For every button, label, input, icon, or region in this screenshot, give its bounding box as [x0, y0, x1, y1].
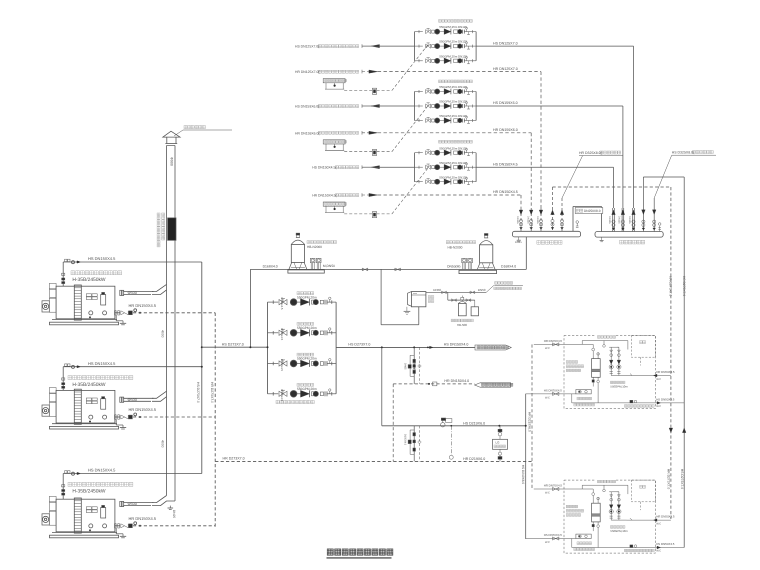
svg-text:HS DN70X4.5: HS DN70X4.5: [544, 533, 563, 537]
boiler B2 label: [68, 376, 133, 388]
pipe HR D219X6.0 label: [463, 457, 485, 461]
svg-text:DN65: DN65: [404, 363, 407, 370]
bypass assembly 2: [404, 426, 422, 462]
pipe riser supply to HS D219 main: [381, 347, 383, 425]
drawing title: [327, 549, 393, 558]
collector inlet drop 2: [526, 208, 533, 231]
pipe makeup water main: [249, 265, 526, 349]
bypass assembly 1: [404, 347, 422, 384]
boiler B3 supply line HS DN150X4.5: [63, 468, 202, 476]
svg-text:HR DN125X7.0: HR DN125X7.0: [493, 67, 518, 71]
svg-text:DN125: DN125: [628, 216, 631, 224]
unit U2 HS inlet left: [526, 533, 576, 544]
pump P4-3 primary hot-water pump: [268, 353, 337, 371]
svg-text:HR D273X7.0: HR D273X7.0: [223, 456, 245, 460]
unit U2 HR outlet right: [627, 515, 675, 526]
boiler B3 return line HR DN150X4.5: [115, 516, 216, 528]
svg-text:550GPM,25m DN125: 550GPM,25m DN125: [439, 175, 467, 179]
pressurization unit box loop 2: [323, 140, 346, 151]
boiler B2 return line HR DN150X4.5: [115, 407, 216, 419]
pump P2-3 secondary pump: [415, 114, 477, 123]
unit U1 HR outlet right: [627, 370, 675, 381]
pipe HS primary main: [202, 343, 268, 348]
svg-text:HB-500: HB-500: [457, 323, 468, 327]
svg-text:550GPM,25m DN125: 550GPM,25m DN125: [439, 146, 467, 150]
unit U1 bottom pipe: [572, 394, 684, 408]
svg-text:550GPM,20m: 550GPM,20m: [297, 295, 317, 299]
svg-text:HR D219X6.0: HR D219X6.0: [463, 457, 485, 461]
pump group G4 label: [276, 400, 314, 403]
svg-text:DN125: DN125: [608, 216, 611, 224]
pipe HR from commercial flag (dashed): [393, 379, 474, 386]
svg-text:HS D273X7.0: HS D273X7.0: [348, 343, 370, 347]
pipe HS primary main right of pump group: [336, 343, 475, 349]
svg-text:HS D273X7.0: HS D273X7.0: [196, 382, 200, 403]
supply pennant flag: [475, 345, 511, 350]
distributor header: [595, 232, 663, 244]
svg-text:W.C: W.C: [545, 541, 550, 544]
svg-text:550GPM,25m DN125: 550GPM,25m DN125: [439, 54, 467, 58]
expansion tank A: [288, 233, 324, 273]
label HR D325X8.0 external return: [562, 151, 623, 198]
boiler B1 body: [50, 285, 119, 325]
distributor outlet drop 1: [628, 208, 635, 232]
return pennant flag: [475, 383, 513, 387]
unit U1 pressurization pump box: [574, 390, 595, 406]
unit U2 water tank sub-box: [631, 480, 655, 502]
svg-text:W.C: W.C: [656, 523, 661, 526]
svg-text:W.C: W.C: [545, 491, 550, 494]
label HS D325X8.0 external supply: [654, 151, 716, 199]
pump P3-2 secondary pump: [415, 161, 477, 170]
svg-text:D159x4.5: D159x4.5: [280, 359, 284, 371]
svg-text:HR DN159X6.0: HR DN159X6.0: [493, 128, 518, 132]
svg-text:DN50: DN50: [478, 288, 486, 292]
pipe HR loop 2 to collector (dashed): [378, 128, 532, 208]
svg-text:HS D219X6.0: HS D219X6.0: [521, 465, 525, 485]
collector drop 5 (external return): [560, 198, 564, 231]
flue duct boiler B2: [120, 391, 167, 402]
pump group G2 title: [439, 80, 473, 83]
pipe HS riser to unit boxes: [521, 394, 527, 539]
control line loop 3 (dashed with solenoid): [344, 167, 428, 217]
softened water tank drain mark: [404, 307, 411, 314]
svg-text:HR D219X6.0: HR D219X6.0: [528, 412, 532, 432]
vacuum degasser unit: [493, 426, 508, 462]
svg-text:550GPM,25m DN125: 550GPM,25m DN125: [439, 100, 467, 104]
svg-text:550GPM,25m DN125: 550GPM,25m DN125: [439, 25, 467, 29]
svg-text:HS DN50X3.5: HS DN50X3.5: [656, 542, 675, 546]
svg-text:HS D273X7.0: HS D273X7.0: [682, 276, 686, 296]
pipe HR riser from unit boxes (dashed): [528, 344, 532, 489]
heat exchange unit U2 enclosure: [564, 478, 656, 553]
pump P4-2 primary hot-water pump: [268, 322, 337, 340]
unit U2 left spec text: [566, 505, 584, 516]
pipe HS loop 1 to distributor: [476, 46, 633, 208]
boiler B3 drain: [116, 528, 126, 538]
svg-text:DN125: DN125: [516, 216, 519, 224]
unit U1 internal top pipe: [582, 341, 628, 350]
pump group G1 bracket: [415, 32, 477, 61]
unit U1 water tank sub-box: [631, 336, 655, 358]
boiler B1 drain: [116, 315, 126, 325]
svg-text:HS DN70X4.5: HS DN70X4.5: [544, 388, 563, 392]
pipe HS boiler header vertical: [196, 262, 203, 474]
chimney top label: [174, 126, 232, 137]
control line loop 1 (dashed with solenoid): [344, 44, 428, 94]
svg-text:550GPM,20m: 550GPM,20m: [297, 326, 317, 330]
svg-text:D159x4.5: D159x4.5: [280, 328, 284, 340]
pump P2-2 secondary pump: [415, 100, 477, 109]
heat exchange unit U1 enclosure: [564, 334, 656, 409]
pressure-differential bypass valve: [441, 418, 452, 427]
pipe HS secondary loop 1 label row: [295, 41, 518, 48]
svg-text:550GPM,20m: 550GPM,20m: [297, 357, 317, 361]
svg-text:HS DN150X4.0: HS DN150X4.0: [444, 343, 469, 347]
svg-text:550GPM,25m DN125: 550GPM,25m DN125: [439, 40, 467, 44]
svg-text:HS D219X6.0: HS D219X6.0: [463, 421, 485, 425]
collector header: [512, 231, 580, 244]
svg-text:HS D273X7.0: HS D273X7.0: [680, 469, 684, 489]
unit U1 tank drop pipe: [640, 357, 642, 365]
chimney silencer: [157, 213, 176, 247]
balance pipe air vent: [576, 221, 579, 228]
svg-text:DN50(M): DN50(M): [447, 265, 460, 269]
collector drop 4 (from HX units return): [551, 187, 555, 231]
svg-text:Φ500: Φ500: [128, 291, 137, 295]
collector inlet drop 1: [536, 208, 543, 231]
svg-text:D150X4.0: D150X4.0: [404, 434, 407, 446]
svg-text:HS DN150X4.5: HS DN150X4.5: [493, 162, 518, 166]
svg-text:D168X4.0: D168X4.0: [501, 265, 516, 269]
unit U1 circulation pumps: [609, 341, 628, 389]
collector inlet drop 3: [516, 208, 523, 231]
boiler B3 body: [50, 498, 119, 538]
svg-text:HB-N2000: HB-N2000: [307, 245, 322, 249]
pipe HR secondary loop 1 label row (dashed): [295, 70, 378, 74]
pump P4-4 primary hot-water pump: [268, 383, 337, 401]
distributor drop 5 (external supply): [652, 198, 656, 232]
pump P3-3 secondary pump: [415, 175, 477, 184]
svg-text:HS DN125X7.0(: HS DN125X7.0(: [295, 45, 320, 49]
pipe HR secondary loop 3 label row (dashed): [312, 193, 378, 197]
svg-text:550GPM,25m DN125: 550GPM,25m DN125: [439, 161, 467, 165]
boiler B3 supply riser: [62, 474, 65, 500]
pressurization unit box loop 3: [323, 202, 346, 213]
valve on makeup line 1: [362, 268, 368, 271]
boiler B1 burner: [42, 283, 56, 312]
svg-text:550GPM,10m: 550GPM,10m: [610, 384, 628, 388]
distributor drop 4 (to HX units supply): [642, 177, 646, 232]
pump group G2 bracket: [415, 92, 477, 121]
pump P2-1 secondary pump: [415, 85, 477, 94]
boiler B1 supply riser: [62, 262, 65, 286]
unit U2 circulation pumps: [609, 485, 628, 533]
svg-text:DN50: DN50: [433, 288, 441, 292]
pipe collector to makeup connection: [501, 237, 526, 270]
pump group G4 bracket: [267, 302, 337, 394]
svg-text:DN25: DN25: [515, 241, 522, 244]
pressurization unit box loop 1: [323, 79, 346, 90]
distributor outlet drop 3: [608, 208, 615, 232]
svg-text:HS DN150X4.5: HS DN150X4.5: [88, 361, 116, 366]
chimney stack: [167, 146, 176, 502]
unit U2 internal top pipe: [582, 485, 628, 494]
collector drain: [515, 237, 522, 244]
svg-text:H-35B/2450kW: H-35B/2450kW: [72, 382, 106, 388]
unit U1 HS inlet left: [526, 388, 576, 399]
unit U1 left spec text: [566, 361, 584, 372]
distributor drain: [600, 237, 604, 242]
pump P1-3 secondary pump: [415, 54, 477, 63]
svg-text:DN25: DN25: [172, 510, 176, 518]
pump P4-1 primary hot-water pump: [268, 292, 337, 310]
svg-text:HR DN150X4.0: HR DN150X4.0: [444, 379, 469, 383]
svg-text:W.C: W.C: [545, 347, 550, 350]
boiler B3 label: [68, 482, 133, 494]
svg-text:HS DN50X3.5: HS DN50X3.5: [656, 397, 675, 401]
svg-text:HR DN150X4.5(: HR DN150X4.5(: [312, 194, 337, 198]
chimney cap: [163, 131, 180, 145]
pipe HR loop 1 to collector (dashed): [378, 67, 541, 208]
boiler B1 supply line HS DN150X4.5: [63, 256, 202, 264]
pump group G3 title: [439, 140, 473, 143]
svg-text:HB-N2000: HB-N2000: [448, 246, 463, 250]
pipe HS loop 2 to distributor: [476, 106, 623, 208]
pump group G1 title: [439, 20, 473, 23]
flue duct boiler B3: [120, 496, 176, 519]
pipe tank feed from makeup: [381, 269, 419, 324]
boiler B2 supply riser: [62, 367, 65, 391]
pipe HR riser from HX units (dashed): [553, 187, 673, 519]
boiler B2 body: [50, 389, 119, 429]
unit U2 pressurization pump box: [574, 534, 595, 550]
svg-text:HR DN70X4.5: HR DN70X4.5: [544, 483, 563, 487]
svg-text:DN125: DN125: [526, 216, 529, 224]
svg-text:Φ500: Φ500: [128, 398, 137, 402]
pipe HR secondary loop 2 label row (dashed): [295, 131, 378, 135]
pipe HS to commercial flag: [427, 343, 468, 349]
svg-text:550GPM,25m DN125: 550GPM,25m DN125: [439, 85, 467, 89]
city water inlet label: [486, 282, 523, 293]
svg-text:HS DN159X6.0(: HS DN159X6.0(: [295, 105, 320, 109]
expansion tank B: [459, 234, 497, 274]
svg-text:550GPM,20m: 550GPM,20m: [297, 387, 317, 391]
pump group G3 bracket: [415, 153, 477, 182]
softened water tank: [408, 292, 434, 307]
svg-text:HS DN150X4.5: HS DN150X4.5: [88, 256, 116, 261]
boiler B2 drain: [116, 419, 126, 429]
svg-text:HR DN159X6.0(: HR DN159X6.0(: [295, 131, 320, 135]
svg-text:HR DN150X4.5: HR DN150X4.5: [129, 407, 157, 412]
svg-text:Φ900: Φ900: [170, 157, 174, 166]
svg-text:D159x4.5: D159x4.5: [280, 389, 284, 401]
condensate trap on HR main: [449, 426, 453, 460]
unit U1 HR inlet left: [534, 339, 582, 350]
pipe HS secondary loop 3 label row: [312, 162, 517, 169]
water softener line: [426, 288, 486, 294]
unit U2 tank drop pipe: [640, 502, 642, 510]
balance pipe: [573, 207, 603, 232]
distributor outlet drop 2: [618, 208, 625, 232]
svg-text:4000: 4000: [161, 440, 165, 448]
svg-text:H-35B/2450kW: H-35B/2450kW: [72, 489, 106, 495]
svg-text:HR DN150X4.5: HR DN150X4.5: [129, 516, 157, 521]
pipe HS loop 3 to distributor: [476, 167, 613, 208]
svg-text:HR DN50X3.5: HR DN50X3.5: [656, 515, 675, 519]
unit U2 HR inlet left: [534, 483, 582, 494]
svg-text:DN125: DN125: [618, 216, 621, 224]
svg-text:DN125: DN125: [536, 216, 539, 224]
pipe HR boiler header vertical (dashed): [210, 313, 215, 528]
expansion tank A pumps: [310, 258, 335, 269]
svg-text:Φ500: Φ500: [128, 502, 137, 506]
pump P1-1 secondary pump: [415, 25, 477, 34]
svg-text:W.C: W.C: [545, 396, 550, 399]
svg-text:HR D273X7.0: HR D273X7.0: [667, 469, 671, 490]
svg-text:D168X4.0: D168X4.0: [263, 265, 278, 269]
svg-text:M,DN50: M,DN50: [323, 264, 335, 268]
boiler B1 return line HR DN150X4.5: [115, 303, 216, 315]
svg-text:HS DN150X4.5(: HS DN150X4.5(: [312, 166, 337, 170]
svg-text:HR DN150X4.5: HR DN150X4.5: [129, 303, 157, 308]
svg-text:550GPM,25m DN125: 550GPM,25m DN125: [439, 114, 467, 118]
svg-text:HR DN125X7.0(: HR DN125X7.0(: [295, 70, 320, 74]
unit U1 plate heat exchanger: [582, 344, 600, 403]
svg-text:HS DN150X4.5: HS DN150X4.5: [88, 468, 116, 473]
svg-text:W.C: W.C: [656, 405, 661, 408]
pipe HS D219X6.0 main: [382, 421, 526, 427]
water softener unit: [448, 292, 479, 327]
svg-text:HR D325X8.0(: HR D325X8.0(: [579, 151, 603, 155]
pipe riser return from flag (dashed): [392, 384, 394, 462]
svg-text:550GPM,10m: 550GPM,10m: [610, 529, 628, 533]
svg-text:HR DN150X4.5: HR DN150X4.5: [493, 190, 518, 194]
pump P1-2 secondary pump: [415, 40, 477, 49]
svg-text:W.C: W.C: [656, 550, 661, 553]
svg-text:HS DN159X6.0: HS DN159X6.0: [493, 101, 518, 105]
svg-text:HR DN70X4.5: HR DN70X4.5: [544, 339, 563, 343]
boiler B2 supply line HS DN150X4.5: [63, 361, 202, 369]
pump P3-1 secondary pump: [415, 146, 477, 155]
svg-text:HS D273X7.0: HS D273X7.0: [222, 343, 244, 347]
flue duct boiler B1: [120, 284, 167, 295]
svg-text:HR D273X7.0: HR D273X7.0: [669, 276, 673, 297]
pipe HR loop 3 to collector (dashed): [378, 190, 521, 208]
svg-text:LG: LG: [495, 441, 500, 445]
control line loop 2 (dashed with solenoid): [344, 105, 428, 155]
expansion tank A label: [307, 241, 337, 249]
pipe HS secondary loop 2 label row: [295, 101, 518, 108]
pipe HS riser to HX units: [643, 177, 686, 548]
pipe HR primary main (dashed): [215, 456, 532, 461]
valve on makeup line 2: [395, 268, 401, 271]
svg-text:W.C: W.C: [656, 378, 661, 381]
svg-text:HS DN125X7.0: HS DN125X7.0: [493, 41, 518, 45]
svg-text:HR D273X7.0: HR D273X7.0: [210, 382, 214, 403]
boiler B3 burner: [42, 496, 56, 525]
boiler B2 burner: [42, 388, 56, 417]
svg-text:D159x4.5: D159x4.5: [280, 298, 284, 310]
distributor air vent: [658, 223, 661, 232]
svg-text:HR DN50X3.5: HR DN50X3.5: [656, 370, 675, 374]
svg-text:DN250X8.0: DN250X8.0: [584, 209, 601, 213]
unit U2 plate heat exchanger: [582, 489, 600, 548]
unit U2 bottom pipe: [572, 539, 684, 553]
svg-text:H-35B/2450kW: H-35B/2450kW: [72, 277, 106, 283]
svg-text:HS D325X8.0(: HS D325X8.0(: [672, 151, 695, 155]
expansion tank B pumps: [447, 258, 472, 269]
expansion tank B label: [446, 241, 476, 250]
boiler B1 label: [71, 271, 122, 283]
svg-text:4000: 4000: [161, 330, 165, 338]
